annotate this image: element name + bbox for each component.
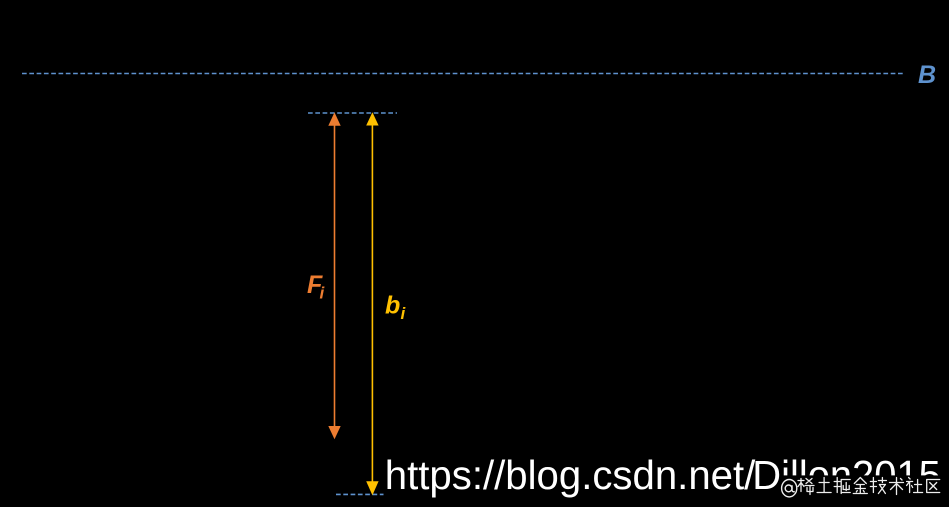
svg-text:https://blog.csdn.net/: https://blog.csdn.net/ <box>385 452 756 498</box>
svg-text:B: B <box>918 61 936 89</box>
svg-text:b: b <box>385 292 400 320</box>
